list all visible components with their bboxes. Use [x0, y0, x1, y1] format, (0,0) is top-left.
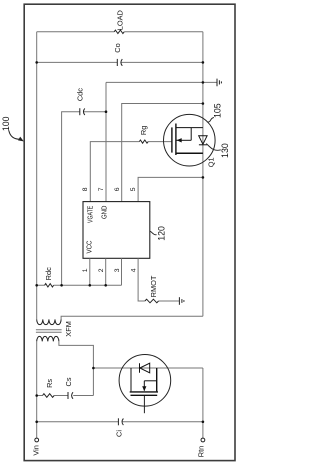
svg-text:6: 6 — [114, 187, 121, 191]
resistor LOAD — [114, 30, 124, 33]
svg-text:RMOT: RMOT — [149, 275, 158, 297]
node Rtn terminal — [201, 438, 205, 442]
svg-text:Rdc: Rdc — [44, 267, 53, 280]
wire right rail lower — [202, 368, 204, 438]
node Vin terminal — [35, 438, 39, 442]
wire VCC rail — [37, 284, 122, 286]
wire pin3 — [121, 258, 123, 285]
op-amp U1 controller IC 120 — [83, 202, 150, 259]
transformer XFM primary winding — [37, 336, 59, 341]
svg-text:Vin: Vin — [31, 445, 40, 456]
svg-text:Rs: Rs — [45, 379, 54, 388]
wire pin2 — [105, 258, 107, 285]
svg-text:Cs: Cs — [64, 377, 73, 386]
wire primary bottom to switch node — [59, 341, 94, 368]
svg-text:4: 4 — [130, 268, 137, 272]
wire pin7 GND — [105, 82, 107, 201]
capacitor Cs — [68, 392, 73, 399]
wire left rail upper (Vout+) — [36, 32, 38, 320]
svg-text:5: 5 — [130, 187, 137, 191]
transistor Q1 circle — [164, 114, 216, 166]
transformer XFM secondary winding — [37, 319, 61, 324]
wire pin5 to Q1 source — [138, 177, 203, 201]
svg-text:7: 7 — [98, 187, 105, 191]
wire switch node to primary FET and Rtn rail — [93, 367, 202, 369]
wire right rail (drain of Q1 up to output) — [202, 32, 204, 316]
svg-text:100: 100 — [1, 116, 11, 131]
wire pin8 VGATE to gate — [90, 142, 172, 202]
svg-text:120: 120 — [157, 226, 167, 241]
resistor Rdc — [45, 284, 54, 287]
wire Ci branch (input) — [37, 421, 203, 423]
svg-text:Rtn: Rtn — [196, 446, 205, 458]
diode body diode of primary FET — [140, 363, 150, 373]
wire pin1 — [89, 258, 91, 285]
svg-text:3: 3 — [114, 268, 121, 272]
transistor Q1 symbol — [172, 124, 176, 156]
svg-text:8: 8 — [82, 187, 89, 191]
svg-text:Ci: Ci — [114, 430, 123, 437]
svg-text:GND: GND — [99, 206, 108, 220]
resistor Rg — [139, 140, 148, 143]
capacitor Co — [117, 59, 122, 66]
wire transformer secondary top to rail — [61, 316, 203, 319]
svg-text:Q1: Q1 — [206, 157, 215, 167]
svg-text:130: 130 — [220, 143, 230, 158]
border frame — [24, 4, 235, 460]
ground (output) — [217, 79, 221, 87]
capacitor Cdc — [80, 108, 85, 115]
wire gate stub of primary FET — [143, 396, 145, 413]
svg-text:Cdc: Cdc — [76, 88, 85, 101]
svg-text:1: 1 — [82, 268, 89, 272]
wire Cdc branch — [62, 112, 106, 286]
wire LOAD branch — [37, 31, 203, 33]
wire snubber branch — [37, 368, 94, 396]
svg-text:105: 105 — [213, 103, 223, 118]
svg-text:Rg: Rg — [139, 126, 148, 135]
wire Co branch — [37, 61, 203, 63]
svg-text:2: 2 — [98, 268, 105, 272]
capacitor Ci — [118, 418, 123, 425]
ground (RMOT) — [179, 297, 184, 305]
resistor Rs — [43, 394, 55, 398]
transformer XFM core — [36, 330, 62, 332]
svg-text:XFM: XFM — [64, 321, 73, 337]
wire pin4 to RMOT — [138, 258, 179, 301]
wire pin6 to rail — [122, 104, 203, 202]
transistor primary FET symbol — [131, 368, 157, 391]
svg-text:Co: Co — [113, 43, 122, 52]
wire secondary ground branch — [106, 81, 217, 83]
svg-text:VGATE: VGATE — [85, 206, 94, 223]
svg-text:LOAD: LOAD — [116, 10, 125, 30]
wire left rail lower (Vin+) — [36, 341, 38, 438]
resistor RMOT — [145, 299, 159, 303]
node 100 leader arrow — [9, 131, 24, 142]
transistor primary FET circle — [119, 355, 171, 407]
svg-text:VCC: VCC — [85, 240, 94, 254]
diode 130 (body diode of Q1) — [199, 136, 207, 145]
